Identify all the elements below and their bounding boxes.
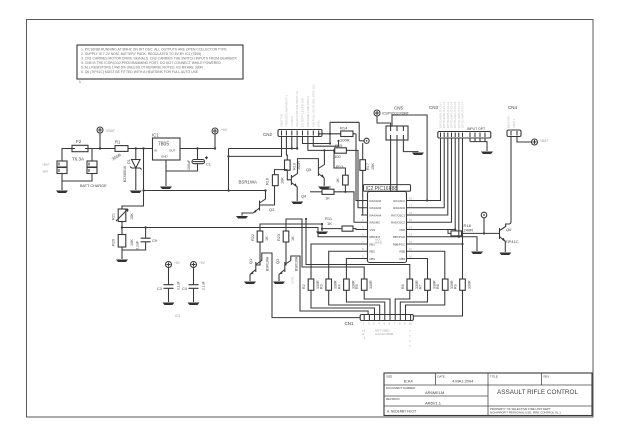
node battery sense [121,226,123,228]
wire PIC12 to R9 [413,244,463,279]
wire R15 to PIC pin2 [346,150,361,207]
wire under-IC to R6 [306,219,410,279]
svg-text:330R: 330R [468,280,472,289]
svg-text:BATT CHARGE: BATT CHARGE [80,184,107,188]
svg-text:0.1uF: 0.1uF [136,240,140,250]
wire CN2 pin5 loop over R14 [303,137,331,144]
svg-text:RA7/OSC1: RA7/OSC1 [391,214,405,218]
svg-text:RA5/MC: RA5/MC [370,221,381,225]
transistor Q1 [244,242,270,284]
capacitor C3 10uF with VCC [157,261,181,305]
svg-text:REVISION:: REVISION: [386,397,400,401]
CN1 note text [362,329,411,348]
svg-text:BSR1WA: BSR1WA [266,256,270,271]
resistor R2 330R [302,279,320,290]
capacitor C1 100uF [166,147,211,171]
wire CN3 p7 to r8 net [462,138,464,244]
svg-text:7805: 7805 [158,142,169,148]
wire 5V rail to R15 [229,148,298,150]
transistor Q2 [273,242,299,284]
svg-text:ASSAULT RIFLE CONTROL: ASSAULT RIFLE CONTROL [497,389,578,396]
notes box [77,45,243,84]
svg-text:10K: 10K [130,213,134,220]
svg-text:4. CN5 IS THE ICSP/ICD2 PROGRA: 4. CN5 IS THE ICSP/ICD2 PROGRAMMING PORT… [81,61,221,65]
svg-text:Q5: Q5 [306,167,312,172]
svg-text:R21: R21 [112,213,116,220]
wire [166,149,215,187]
wire CN4 p1 to Q6 collector [506,137,511,228]
VCC bubble MCLR [359,138,369,143]
svg-text:1K: 1K [265,236,269,241]
svg-text:R14: R14 [340,126,348,131]
wire [128,148,153,150]
wire CN3 p2 to PIC17 [413,138,444,208]
svg-text:1: 1 [79,80,81,84]
svg-text:VSS: VSS [370,228,376,232]
wire VCC to CN5 [377,116,391,126]
svg-text:100R: 100R [340,138,350,143]
wire CN5 gnd [403,140,418,152]
VCC symbol near CN4 [532,139,549,145]
resistor R20 10K [112,235,135,260]
svg-text:CN4: CN4 [508,105,517,110]
regulator IC1 7805 [152,133,180,161]
resistor R19 100R [285,160,302,170]
svg-text:10: 10 [409,322,413,326]
VCC bubble at Q6 base [481,212,487,234]
wire R7 to CN1 fan [400,290,427,314]
wire [62,149,115,162]
IC2 left pin stubs [361,197,368,259]
svg-text:-BAT: -BAT [42,170,49,174]
svg-text:C3: C3 [157,287,162,291]
wire sense line to PIC [122,228,361,237]
svg-text:IC1: IC1 [152,133,159,138]
wire R2 to CN1 fan [311,290,375,314]
wire CN3 p6 to gnd net [458,138,460,237]
svg-text:240R: 240R [464,228,474,233]
CN3 net labels (rotated) [439,101,465,128]
resistor R7 330R [419,279,437,290]
svg-text:CUTOFF-LEVER-SW: CUTOFF-LEVER-SW [301,98,305,127]
IC2 internal pin names [370,199,382,261]
svg-text:RB5: RB5 [400,250,406,254]
svg-text:R22: R22 [251,234,255,241]
wire CN2 pin8 to 5V rail [319,134,341,137]
ground [116,260,128,263]
svg-text:SELECTOR-SW-INPUT-12: SELECTOR-SW-INPUT-12 [295,91,299,127]
resistor R9 330R [454,279,472,290]
resistor R23 1K [277,231,295,242]
svg-text:R13: R13 [336,164,344,169]
resistor R13 1K [336,164,348,185]
wire R17 to PIC pin3 [361,170,363,215]
transistor Q3 [236,189,275,218]
svg-text:C1: C1 [206,163,211,167]
svg-text:RA1/AN1: RA1/AN1 [393,199,405,203]
svg-text:R1: R1 [115,140,121,145]
wire R16 top to BAT rail [275,170,288,175]
svg-text:A. NEDERBY FECIT: A. NEDERBY FECIT [387,410,416,414]
svg-text:R2: R2 [302,284,306,289]
wire CN3 p3 to PIC16 [413,138,448,215]
svg-text:+5V: +5V [199,261,206,265]
wire BAT rail [144,190,266,192]
CN1 pin number labels [363,322,412,326]
wire Q4 collector to Q5 base [298,159,319,174]
junction [99,147,101,149]
svg-text:CN3: CN3 [429,105,438,110]
svg-text:IC3: IC3 [175,314,180,318]
svg-text:REV: REV [544,375,550,379]
transistor Q5 [306,160,330,189]
op IC2 PIC16F88 [364,185,411,263]
wire CN5 pgd pgc down [391,140,397,192]
wire Q5 collector to R15 node [323,150,325,160]
resistor R17 15K [360,143,375,170]
capacitor C9 0.1uF [122,226,157,250]
VCC symbol ICSP [374,110,380,116]
svg-text:AR6MELM: AR6MELM [425,390,444,395]
resistor R6 330R [401,279,419,290]
svg-text:+5V: +5V [221,128,228,132]
svg-text:RB2: RB2 [370,250,376,254]
svg-text:1. PIC16F88 RUNNING AT 8MHZ ON: 1. PIC16F88 RUNNING AT 8MHZ ON INT OSC. … [81,48,228,52]
svg-text:2. SUPPLY IS 7.2V NOM. BATTERY: 2. SUPPLY IS 7.2V NOM. BATTERY PACK. REG… [81,52,201,56]
wire PIC9L to R4 [346,259,361,280]
svg-text:VBAT: VBAT [540,139,548,143]
wire PIC11 to R8 [413,251,445,279]
svg-text:T6.3A: T6.3A [72,157,84,162]
svg-text:RB6/PGC: RB6/PGC [393,243,405,247]
svg-text:15K: 15K [371,163,375,170]
svg-text:4.MAJ.2004: 4.MAJ.2004 [452,379,474,384]
ground [412,153,424,156]
resistor R16 10K [266,175,285,186]
svg-text:RB7/PGD: RB7/PGD [393,235,405,239]
ground [160,187,172,190]
svg-text:+5V: +5V [174,261,181,265]
wire CN2 pin3 to 5V rail [291,137,293,149]
wire R23 top [286,219,364,279]
svg-text:100: 100 [334,154,341,159]
resistor R11 1K with ground [316,216,361,234]
svg-text:DATE:: DATE: [438,375,446,379]
wire Q2 collector down to CN1 [294,256,369,315]
svg-text:INPUT OPT: INPUT OPT [467,127,485,131]
svg-text:R19: R19 [293,163,297,170]
svg-text:6. Q6 (TIP41C) MUST BE FITTED: 6. Q6 (TIP41C) MUST BE FITTED WITH A HEA… [81,70,199,74]
svg-text:RA6/OSC2: RA6/OSC2 [391,221,405,225]
svg-text:GND: GND [161,155,169,159]
ground [56,191,68,194]
wire R12 to PIC pin4 [334,192,361,222]
svg-text:1K: 1K [291,236,295,241]
wire vbat down [122,149,144,210]
svg-text:RB4: RB4 [400,257,406,261]
svg-text:LCD ALL/RGB: LCD ALL/RGB [375,332,393,336]
wire PIC8L to R3 [329,251,361,279]
svg-text:3. CN1 CARRIES MOTOR DRIVE SIG: 3. CN1 CARRIES MOTOR DRIVE SIGNALS. CN2 … [81,57,237,61]
wire CN3 p5 to R18 net [454,138,456,230]
svg-text:+BAT: +BAT [42,163,50,167]
svg-text:+V-MOT: +V-MOT [290,116,294,127]
svg-text:SCRL: SCRL [291,276,295,284]
connector CN1 [345,315,414,327]
svg-text:CN2: CN2 [263,132,272,137]
svg-text:R23: R23 [277,234,281,241]
wire R3 to CN1 fan [329,290,380,314]
svg-text:NON-PROFIT PERSONAL USE. FIRE: NON-PROFIT PERSONAL USE. FIRE CONTROL V1… [490,411,561,415]
connector X1 battery [42,161,67,174]
svg-text:VBATT-IN: VBATT-IN [280,114,284,127]
svg-text:R4: R4 [337,284,341,289]
svg-text:R16: R16 [266,178,270,185]
trimmer R21 10K [112,209,135,235]
svg-text:R8: R8 [436,284,440,289]
svg-text:SIZE: SIZE [386,375,392,379]
svg-text:1K: 1K [327,221,332,226]
wire [99,133,101,149]
diode D1 BZX85/16 [123,149,142,191]
wire bus to R5 [321,224,323,229]
svg-text:Q2: Q2 [275,258,280,264]
svg-text:R17: R17 [366,163,370,170]
junction node VBAT-to-divider [142,147,144,149]
wire CN2 pin7 [313,137,338,147]
wire CN3 p4 to PIC15 [413,138,452,222]
svg-text:BSR1WA: BSR1WA [295,256,299,271]
resistor R3 330R [320,279,338,290]
wire CN3 p1 to PIC18 [413,138,441,201]
svg-text:Q4: Q4 [301,194,307,199]
resistor R22 1K [251,231,269,242]
svg-text:F2: F2 [76,139,82,144]
svg-text:100uF: 100uF [187,159,191,170]
connector X2 charge [80,161,107,188]
svg-text:330R: 330R [369,280,373,289]
svg-text:RA2/AN2: RA2/AN2 [370,199,382,203]
svg-text:Q6: Q6 [506,227,512,232]
ground [471,252,483,255]
svg-text:BSR1WA: BSR1WA [239,180,257,185]
wire R8 to CN1 fan [406,290,445,314]
wire 5V rail [214,134,216,149]
svg-text:BZX85/16: BZX85/16 [123,166,127,182]
svg-text:OUT: OUT [169,149,176,153]
svg-text:IN: IN [154,149,157,153]
capacitor C4 10uF with VCC [182,261,206,305]
resistor R15 100 [334,143,346,159]
junction [142,189,144,191]
svg-text:MOTOR+: MOTOR+ [507,115,511,128]
resistor R18 240R [413,223,500,236]
wire CN2 pin4 to R15 [296,137,298,149]
svg-text:GND: GND [317,120,321,128]
wire CN2 pin6 to VCC node [308,137,335,151]
svg-text:B:A4: B:A4 [404,379,413,384]
VCC symbol VBAT [97,127,116,133]
svg-text:10K: 10K [130,239,134,246]
wire PIC13 to ground [413,237,477,251]
wire [62,149,92,191]
svg-text:Q3: Q3 [269,207,275,212]
svg-text:1K: 1K [336,178,340,183]
wire R6 to CN1 fan [395,290,410,314]
VCC symbol +5V [212,128,228,134]
svg-text:OPTO-INPUT-CH-7: OPTO-INPUT-CH-7 [461,101,465,128]
svg-text:0.1uF: 0.1uF [202,281,206,290]
resistor R12 1K [310,185,334,201]
svg-text:SW-SEMI-FIRE-POS-2: SW-SEMI-FIRE-POS-2 [306,96,310,127]
resistor R1 300R [111,140,128,162]
wire R4 to CN1 fan [346,290,384,314]
svg-text:DOCUMENT NUMBER:: DOCUMENT NUMBER: [386,386,416,390]
wire CN2 pin2 to R19 [285,137,288,161]
svg-text:5. ALL RESISTORS 1/4W 5% UNLES: 5. ALL RESISTORS 1/4W 5% UNLESS OTHERWIS… [81,66,203,70]
svg-text:RA4/AN4: RA4/AN4 [370,214,382,218]
transistor Q4 [287,164,307,204]
wire CN3 gnd bus [470,138,487,151]
svg-text:RB3: RB3 [370,257,376,261]
IC2 right pin stubs [407,197,414,259]
connector CN4 [507,105,522,137]
svg-text:8MHZ: 8MHZ [375,241,382,245]
wire CN4 p2 to VCC [517,137,532,143]
svg-text:R5: R5 [355,284,359,289]
wire CN5 VPP loop [392,115,427,201]
wire R9 to CN1 fan [413,290,462,316]
svg-text:R9: R9 [454,284,458,289]
junction [135,147,137,149]
resistor R4 330R [337,279,355,290]
svg-text:VBATT: VBATT [512,118,516,128]
svg-text:VDD: VDD [399,228,405,232]
svg-text:D1: D1 [127,159,131,164]
connector CN5 [382,106,409,141]
svg-text:10K: 10K [281,177,285,184]
wire R14 to PIC pin1 [356,134,361,201]
svg-text:R20: R20 [112,239,116,246]
transistor Q6 TIP41C [499,227,518,256]
wire PIC7L to R2 [311,244,361,279]
svg-text:VBAT: VBAT [106,129,116,133]
svg-text:R6: R6 [401,284,405,289]
ground [481,152,493,155]
resistor R8 330R [436,279,454,290]
svg-text:AR6V1.1: AR6V1.1 [425,401,442,406]
wire R5 to CN1 fan [364,290,390,314]
svg-text:R7: R7 [419,284,423,289]
svg-text:R3: R3 [320,284,324,289]
svg-text:TRIGGER-SW-INPUT-1: TRIGGER-SW-INPUT-1 [284,95,288,127]
connector CN2 [263,130,322,138]
svg-text:C9: C9 [152,239,157,243]
fuse F2 [72,139,88,162]
svg-text:Q1: Q1 [248,258,253,264]
svg-text:TITLE:: TITLE: [490,375,499,379]
svg-text:C4: C4 [182,287,187,291]
svg-text:SW-FULL-AUTO-SEL-POS-123: SW-FULL-AUTO-SEL-POS-123 [311,84,315,127]
svg-text:TIP41C: TIP41C [505,239,519,244]
wire R22 top [260,224,322,231]
wire R16 bottom to Q3 base [260,186,275,205]
resistor R14 100R [330,122,359,143]
CN2 net labels (rotated) [280,84,321,127]
wire PIC10 to R7 [413,259,428,280]
svg-text:RA3/AN3: RA3/AN3 [370,206,382,210]
ground [130,191,142,194]
svg-text:RA0/AN0: RA0/AN0 [393,206,405,210]
connector CN3 [429,105,491,138]
resistor R5 330R [355,279,373,290]
wire Q1 collector down to CN1 [265,253,361,318]
svg-text:1K: 1K [325,196,330,201]
svg-text:CN5: CN5 [394,106,403,111]
svg-text:0.1uF: 0.1uF [177,281,181,290]
wire R13 bottom to R12 net [344,185,346,192]
wire CN2 pin1 to BAT rail [229,137,282,157]
svg-text:CN1: CN1 [345,321,354,326]
